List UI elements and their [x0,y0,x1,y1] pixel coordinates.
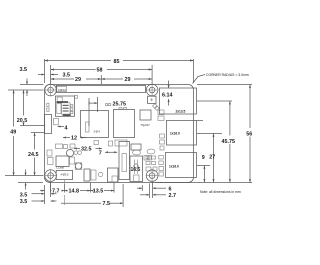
small part below module [54,119,59,125]
svg-text:14.8: 14.8 [69,189,80,195]
dim 3.5 top-left horizontal [38,72,70,78]
DSI connector rect [81,111,109,138]
corner radius note [193,73,249,84]
svg-text:85: 85 [114,59,120,65]
small parts cluster left of ethernet [146,156,157,171]
mounting hole bottom-right [146,169,159,182]
mid-board small components row [47,144,82,170]
svg-text:4: 4 [65,126,68,132]
dim 85 top [45,59,194,83]
svg-text:7.7: 7.7 [52,189,60,195]
mounting hole bottom-left [44,169,57,182]
svg-text:29: 29 [75,77,81,83]
svg-text:7.5: 7.5 [103,201,111,207]
svg-text:3-Ø3.0: 3-Ø3.0 [58,88,66,92]
svg-text:3.5: 3.5 [20,199,28,205]
dim 45.75 right [222,101,236,183]
board outline [45,85,194,183]
dim 12 [63,136,87,142]
svg-text:58: 58 [97,68,103,74]
small parts right of RAM [158,110,164,121]
dim 3.5 left vertical top [8,67,44,96]
bottom edge left connector group [56,169,103,184]
svg-text:Note: all dimensions in mm: Note: all dimensions in mm [200,190,241,194]
svg-text:6: 6 [169,186,172,192]
svg-text:7: 7 [99,151,102,157]
right side extension lines [197,84,252,86]
dim 9 right [202,155,206,183]
tiny marks left of module [47,103,49,111]
svg-text:CORNER RADIUS = 3.0mm: CORNER RADIUS = 3.0mm [206,73,249,77]
USB middle connector [167,121,197,146]
svg-text:3.5: 3.5 [20,67,28,73]
center small parts [94,140,155,155]
RAM chip [140,110,151,127]
svg-text:3.5: 3.5 [20,192,28,198]
dim 32.5 [74,147,102,153]
svg-text:4-Ø3.0: 4-Ø3.0 [61,173,69,177]
SD card slot [45,115,52,134]
bottom chain dim row 7.7 14.8 13.5 [40,182,114,195]
dim 2.7 bottom-right [140,193,176,199]
dim 7.5 bottom [61,184,123,207]
small parts column left of USB middle [159,134,165,176]
svg-text:1x16.0: 1x16.0 [170,131,180,135]
svg-text:16.5: 16.5 [131,167,141,173]
dim 24.5 left [28,133,44,176]
svg-text:32.5: 32.5 [81,147,92,153]
svg-text:56: 56 [246,132,252,138]
dim 6.14 [162,81,173,106]
small parts above ethernet [144,156,152,161]
dim 58 top [51,65,153,84]
dim 27 right [209,134,215,183]
svg-text:2.7: 2.7 [169,193,177,199]
dim 4 [58,126,68,132]
dim 56 right [246,85,252,183]
AV jack connector C [108,168,119,182]
ethernet connector [166,153,197,178]
dim 20.5 left [17,90,44,126]
dim 3.5 bottom row B [20,199,57,205]
small part right of module [75,95,78,98]
dim 3.5 bottom row A [20,192,57,198]
svg-text:9: 9 [202,155,205,161]
bottom-left extension lines [44,185,46,204]
GPIO header bar [56,86,145,93]
mounting hole top-right [146,84,159,97]
svg-text:20.5: 20.5 [17,118,28,124]
mounting hole top-left [44,84,57,97]
svg-text:3-Ø.4: 3-Ø.4 [94,130,101,134]
svg-text:25.75: 25.75 [113,101,127,107]
svg-text:LCxx8: LCxx8 [57,166,65,170]
svg-text:1x16.0: 1x16.0 [169,165,179,169]
dim 49 left [10,90,16,176]
svg-text:27: 27 [209,155,215,161]
svg-text:24.5: 24.5 [28,152,39,158]
power connector E [130,156,143,182]
dim 3.5 bottom-left vertical [25,170,27,190]
dim 7 [99,151,117,157]
dim 29 29 top [51,75,153,84]
svg-text:6.14: 6.14 [162,93,173,99]
svg-text:49: 49 [10,130,16,136]
dim 25.75 [89,97,126,126]
svg-text:45.75: 45.75 [222,139,236,145]
SoC [114,108,135,138]
wifi module [55,96,74,116]
svg-text:13.5: 13.5 [93,189,104,195]
svg-text:2x13.5: 2x13.5 [176,109,186,113]
dim 6 bottom-right [137,182,172,198]
vertical connector D [119,142,130,180]
svg-text:3.5: 3.5 [63,72,71,78]
svg-text:12: 12 [71,136,77,142]
USB top connector [160,88,197,114]
square below top-right hole [148,96,160,110]
svg-text:TQx217: TQx217 [141,123,151,127]
svg-text:29: 29 [125,77,131,83]
